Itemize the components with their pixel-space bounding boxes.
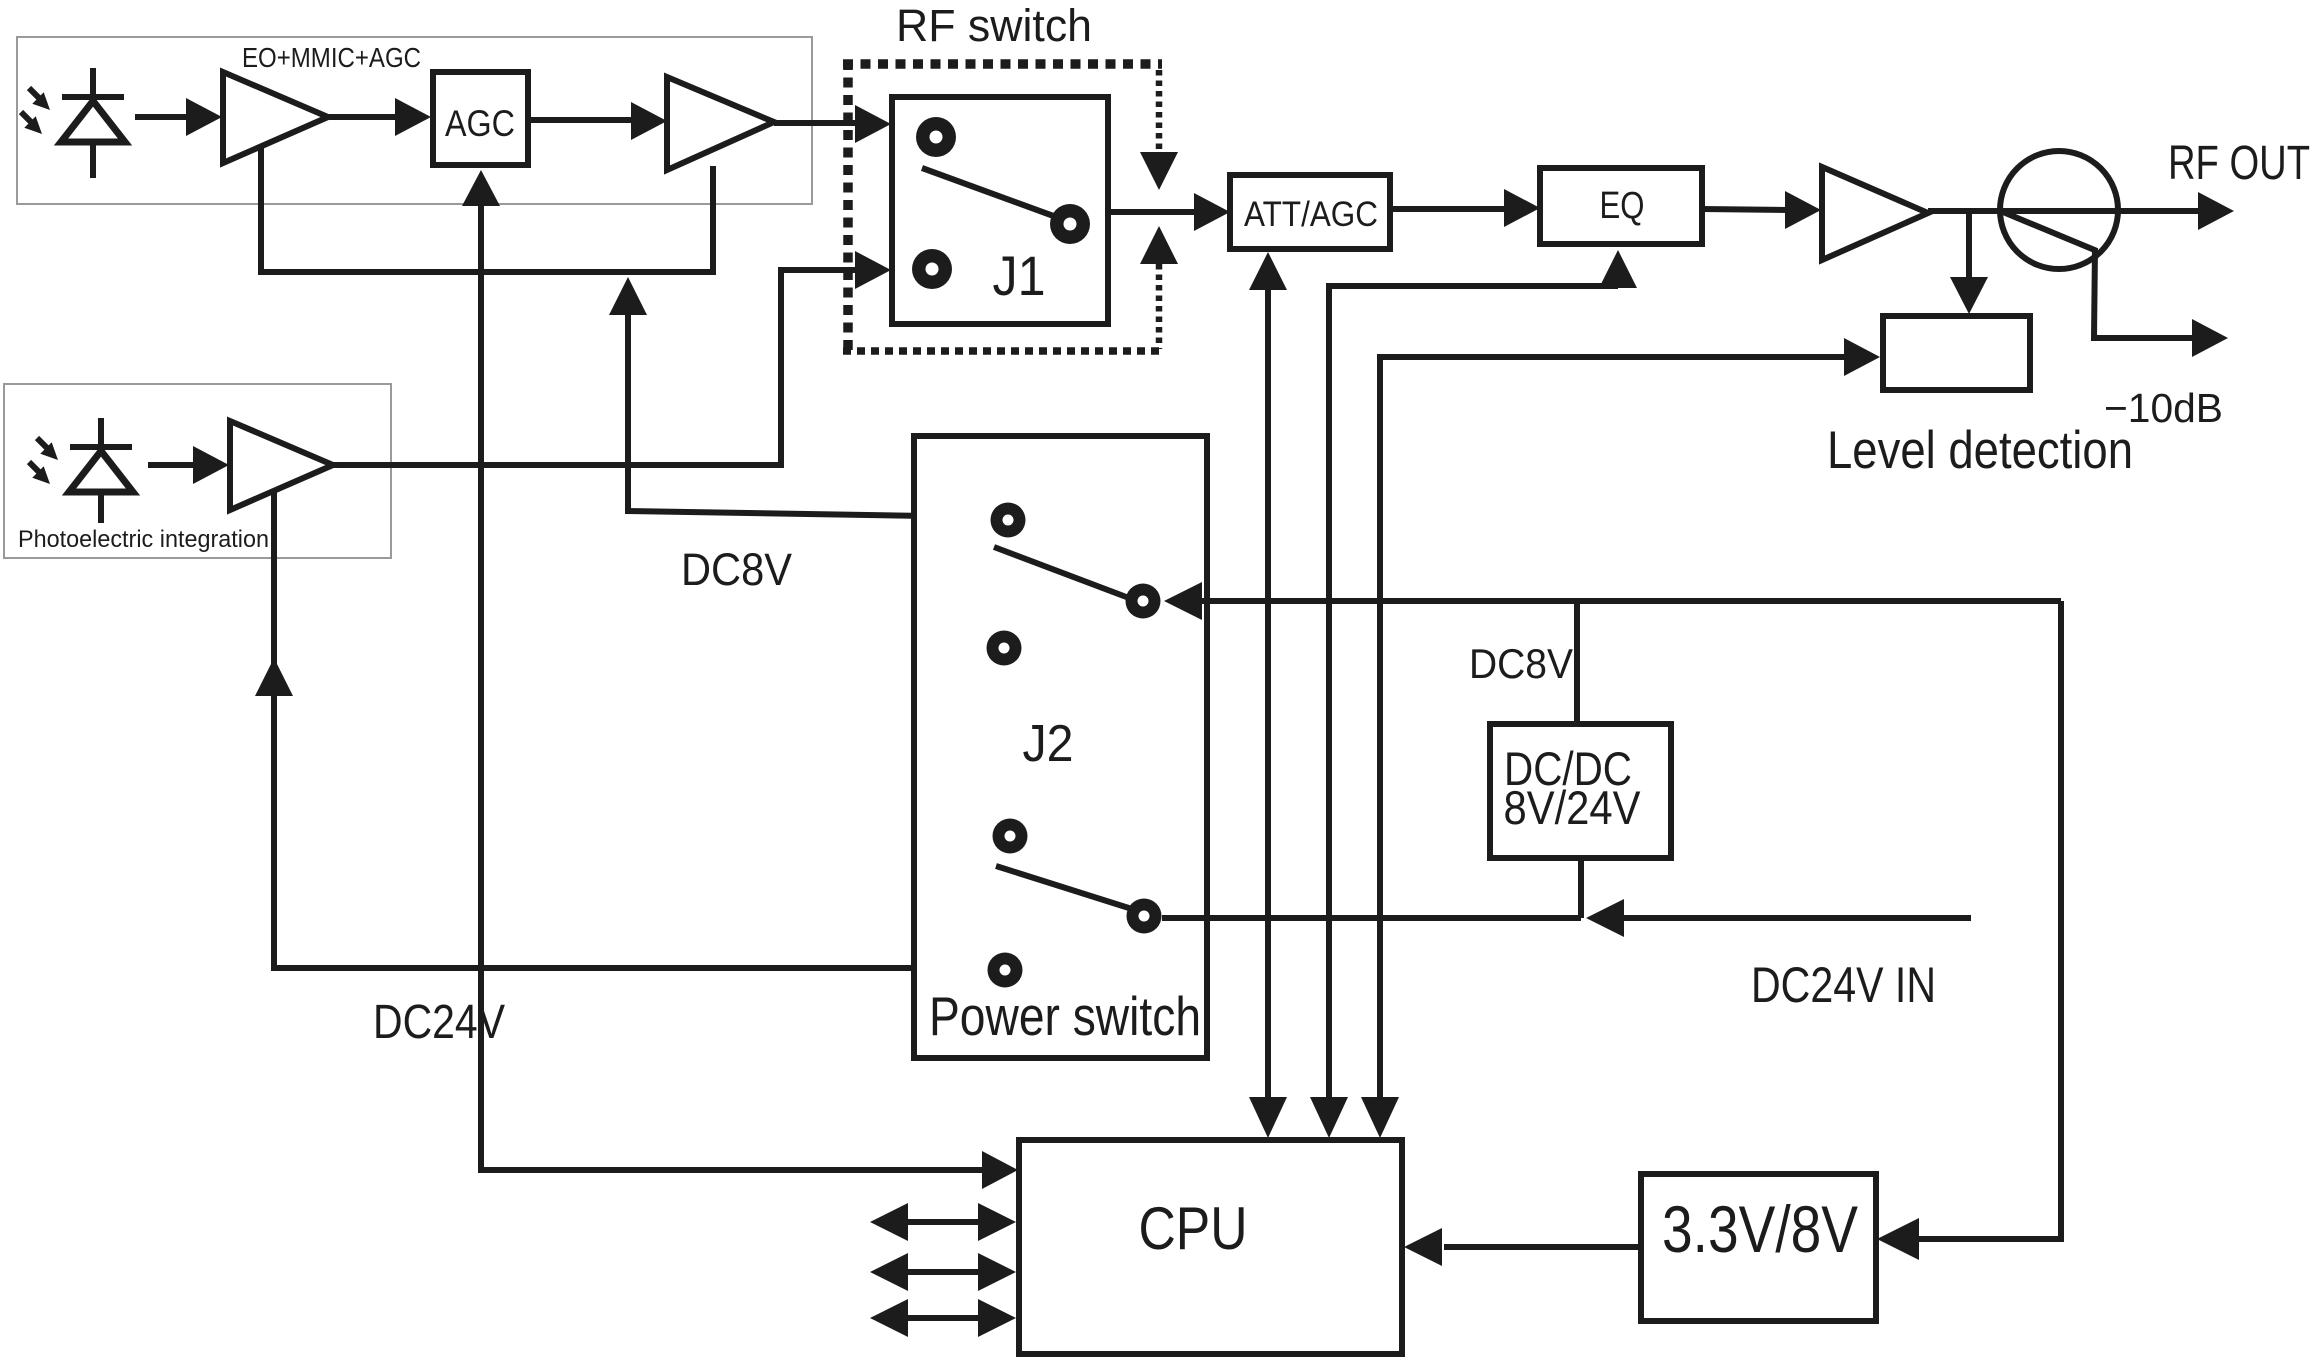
svg-text:DC24V: DC24V <box>373 996 505 1049</box>
svg-text:8V/24V: 8V/24V <box>1504 781 1642 834</box>
svg-text:CPU: CPU <box>1139 1195 1248 1262</box>
svg-text:Level detection: Level detection <box>1827 421 2133 480</box>
svg-text:EO+MMIC+AGC: EO+MMIC+AGC <box>242 42 421 73</box>
svg-text:J1: J1 <box>993 244 1046 307</box>
svg-text:DC8V: DC8V <box>681 544 792 595</box>
svg-text:J2: J2 <box>1023 715 1074 773</box>
svg-text:AGC: AGC <box>445 103 515 144</box>
svg-text:DC8V: DC8V <box>1469 640 1573 687</box>
svg-text:EQ: EQ <box>1600 185 1645 227</box>
svg-text:RF switch: RF switch <box>896 0 1092 51</box>
svg-text:Photoelectric integration: Photoelectric integration <box>18 526 269 553</box>
svg-text:DC24V IN: DC24V IN <box>1751 957 1936 1013</box>
svg-text:RF OUT: RF OUT <box>2168 137 2310 190</box>
svg-text:3.3V/8V: 3.3V/8V <box>1662 1192 1858 1266</box>
svg-text:ATT/AGC: ATT/AGC <box>1244 195 1378 234</box>
svg-text:Power switch: Power switch <box>929 985 1201 1047</box>
